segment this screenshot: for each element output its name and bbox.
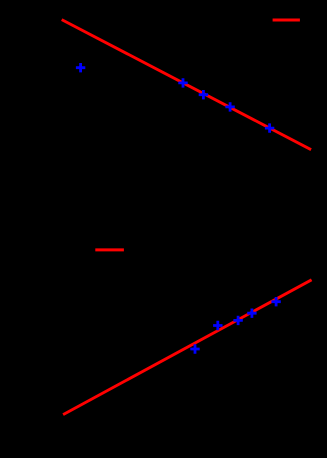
- data marker + (bottom plot, point 2): [213, 321, 222, 330]
- data marker + (top plot, point 5): [265, 123, 274, 132]
- data marker + (top plot, outlier): [76, 63, 85, 72]
- fitted line (bottom plot): [63, 280, 312, 415]
- data marker + (bottom plot, point 4): [247, 309, 256, 318]
- data marker + (top plot, point 3): [199, 90, 208, 99]
- data marker + (bottom plot, point 3): [233, 316, 242, 325]
- data marker + (bottom plot, point 1): [190, 344, 199, 353]
- legend line sample (top plot): [273, 19, 300, 22]
- data marker + (top plot, point 2): [178, 78, 187, 87]
- data marker + (top plot, point 4): [225, 102, 234, 111]
- fitted line (top plot): [62, 20, 311, 150]
- legend line sample (bottom plot): [95, 248, 124, 251]
- data marker + (bottom plot, point 5): [271, 297, 280, 306]
